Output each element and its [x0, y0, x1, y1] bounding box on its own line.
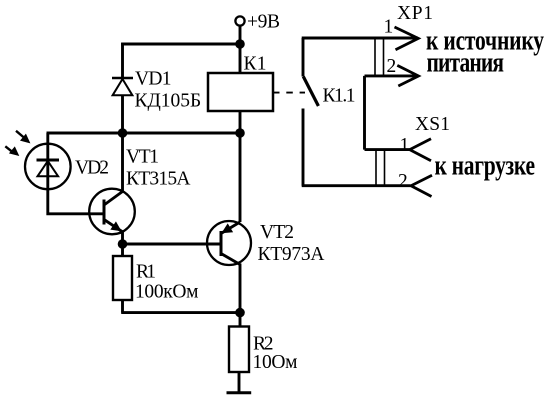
wire R2 bottom to ground [238, 372, 241, 393]
svg-text:К1.1: К1.1 [323, 86, 356, 107]
wire VD2 bottom to VT1 base [48, 190, 104, 214]
photodiode VD2 [25, 144, 71, 190]
svg-text:1: 1 [400, 135, 410, 156]
wire top link to XP1 pin 1 [302, 37, 418, 40]
svg-text:VT1: VT1 [126, 147, 159, 168]
dashed link from K1 coil to contact K1.1 [273, 92, 305, 94]
transistor VT2 [207, 221, 251, 265]
svg-text:питания: питания [427, 45, 505, 78]
wire from +9V terminal down to node A [239, 26, 242, 44]
svg-text:10Ом: 10Ом [253, 352, 298, 373]
connector XP1 body lines [375, 38, 384, 76]
svg-text:2: 2 [387, 56, 397, 77]
wire contact top terminal [302, 38, 305, 77]
svg-text:2: 2 [398, 171, 408, 192]
wire node E down to R2 [239, 313, 242, 327]
svg-text:XS1: XS1 [415, 114, 450, 135]
ground [227, 391, 252, 394]
node B junction dot [118, 128, 128, 138]
contact K1.1 blade [303, 77, 318, 107]
wire relay K1 to node C [239, 111, 242, 133]
resistor R1 [113, 256, 132, 300]
svg-text:К1: К1 [244, 54, 267, 75]
wire contact bottom terminal [302, 109, 305, 186]
wire mid riser XP1 pin2 to XS1 pin1 [363, 76, 366, 150]
light arrow 1 into VD2 [16, 131, 30, 143]
pin 1 of XP1 [395, 27, 419, 50]
svg-text:КТ973А: КТ973А [258, 244, 325, 265]
pin 2 of XP1 [397, 65, 418, 86]
svg-text:к нагрузке: к нагрузке [435, 148, 536, 181]
wire bottom link to node E [121, 311, 240, 314]
wire VT2 collector down to node E [239, 264, 242, 313]
connector XS1 body lines [376, 150, 385, 186]
wire bottom link to XS1 pin 2 [302, 184, 411, 187]
wire top rail from node A left [121, 43, 240, 46]
svg-text:1: 1 [384, 17, 394, 38]
svg-text:XP1: XP1 [397, 3, 433, 24]
svg-text:100кОм: 100кОм [135, 282, 199, 303]
light arrow 2 into VD2 [5, 146, 18, 155]
node C junction dot [235, 128, 245, 138]
wire node D to VT2 base [123, 243, 222, 246]
terminal +9V [235, 16, 244, 25]
pin 2 of XS1 [411, 175, 432, 196]
wire rail2 corner down to VD2 [46, 133, 49, 145]
svg-text:VD1: VD1 [135, 69, 172, 90]
wire node A down to relay K1 [239, 44, 242, 73]
wire node D down to R1 [121, 244, 124, 256]
node A junction dot [235, 39, 245, 49]
pin 1 of XS1 [410, 139, 431, 161]
node E junction dot [235, 308, 245, 318]
resistor R2 [229, 327, 249, 373]
wire VT1 collector up to node B [121, 133, 124, 192]
svg-text:КД105Б: КД105Б [135, 91, 202, 112]
wire VD1 anode down to node B [121, 95, 124, 133]
diode VD1 [112, 78, 133, 95]
wire XS1 pin 1 [365, 148, 410, 151]
relay coil K1 box [208, 73, 273, 111]
svg-text:+9В: +9В [247, 12, 280, 33]
wire VT1 emitter down to node D [121, 231, 124, 244]
svg-text:R1: R1 [136, 262, 156, 283]
wire rail2 from VD2 corner to node C [47, 132, 241, 135]
wire XP1 pin 2 [365, 74, 419, 77]
transistor VT1 [89, 189, 135, 235]
svg-text:VT2: VT2 [260, 222, 294, 243]
wire down to VD1 cathode [121, 43, 124, 78]
wire R1 bottom to bottom link [121, 300, 124, 313]
svg-text:VD2: VD2 [75, 158, 109, 179]
wire node C down to VT2 emitter [239, 133, 242, 222]
node D junction dot [118, 239, 128, 249]
svg-text:КТ315А: КТ315А [126, 169, 191, 190]
